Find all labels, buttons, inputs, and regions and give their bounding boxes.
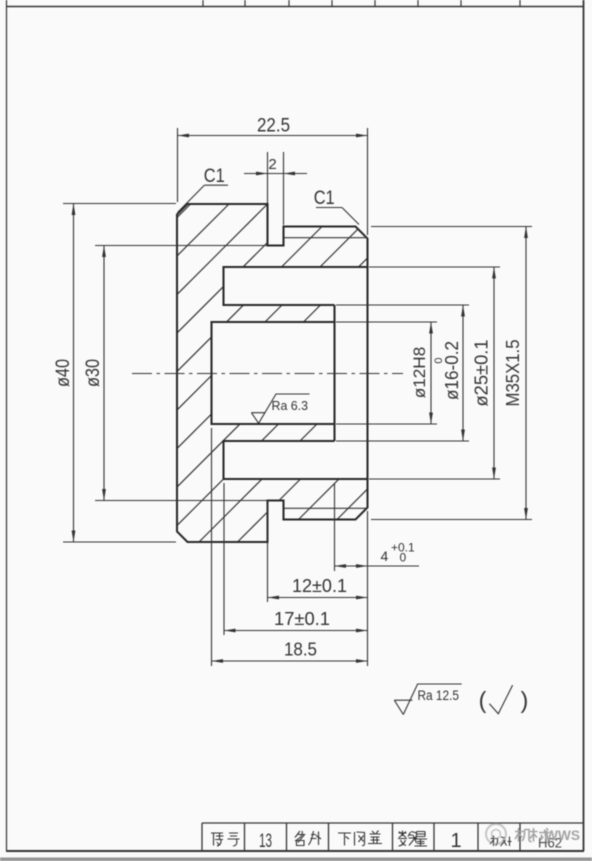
surface finish Ra 6.3 — [251, 394, 309, 423]
hole phi12 rectangle — [212, 322, 335, 424]
title cell xuhao (Chinese glyph strokes) — [211, 833, 240, 846]
svg-text:C1: C1 — [204, 165, 225, 187]
dim 17+-0.1 — [224, 483, 368, 635]
svg-text:ø30: ø30 — [83, 359, 104, 387]
sheet frame left border — [6, 0, 8, 851]
dim 18.5 — [212, 428, 368, 666]
dim phi12H8 — [336, 322, 437, 424]
svg-text:13: 13 — [259, 831, 272, 852]
svg-text:M35X1.5: M35X1.5 — [503, 340, 523, 407]
surface finish Ra 12.5 — [394, 684, 461, 715]
part outer profile — [177, 204, 368, 542]
svg-text:ø12H8: ø12H8 — [411, 347, 429, 399]
svg-text:C1: C1 — [314, 187, 335, 209]
svg-text:WWS: WWS — [545, 827, 580, 843]
dim phi16 0/-0.2 — [336, 305, 469, 441]
chamfer label C1 left — [178, 165, 229, 213]
dim 2 (groove width) — [244, 152, 307, 225]
dim 12+-0.1 — [268, 504, 368, 602]
watermark text jixie WWS — [515, 828, 550, 842]
inner bore recess top band — [224, 267, 368, 305]
svg-text:): ) — [521, 687, 529, 713]
svg-text:22.5: 22.5 — [257, 116, 290, 137]
svg-text:4: 4 — [381, 548, 389, 564]
chamfer label C1 right — [314, 187, 359, 225]
svg-text:12±0.1: 12±0.1 — [292, 576, 347, 596]
svg-text:ø40: ø40 — [53, 359, 74, 387]
svg-text:17±0.1: 17±0.1 — [274, 609, 330, 629]
counterbore bottom face — [333, 305, 335, 441]
dim phi25+-0.1 — [369, 267, 500, 479]
sheet frame top line — [6, 6, 584, 8]
title cell cailiao (Chinese glyph strokes, partially hidden) — [490, 836, 512, 847]
dim M35X1.5 — [371, 227, 532, 520]
title block table — [202, 823, 584, 851]
dim 4 +0.1/0 (recess depth) — [335, 483, 420, 666]
inner bore recess bottom band — [224, 441, 368, 479]
svg-text:1: 1 — [450, 830, 461, 852]
svg-text:(: ( — [479, 687, 487, 713]
svg-text:0: 0 — [400, 551, 407, 565]
center line — [132, 373, 403, 375]
dim phi40 — [53, 204, 176, 543]
thread minor dia line bottom — [284, 507, 368, 509]
watermark logo circle — [486, 824, 506, 844]
thread minor dia line top — [284, 237, 368, 239]
svg-text:Ra 6.3: Ra 6.3 — [272, 399, 309, 413]
svg-text:Ra 12.5: Ra 12.5 — [418, 688, 460, 703]
svg-text:18.5: 18.5 — [284, 640, 317, 660]
svg-text:ø16-0.2: ø16-0.2 — [442, 341, 462, 400]
title cell mingcheng (Chinese glyph strokes) — [295, 831, 321, 846]
sheet frame right border — [583, 0, 585, 851]
image bottom grey edge — [0, 858, 592, 861]
dim 22.5 — [178, 116, 368, 236]
svg-text:0: 0 — [433, 357, 445, 363]
title cell shuliang (Chinese glyph strokes) — [398, 831, 427, 847]
sheet frame bottom line — [6, 850, 584, 852]
svg-text:ø25±0.1: ø25±0.1 — [472, 340, 492, 407]
title cell xiafagai (Chinese glyph strokes) — [338, 831, 382, 846]
other-surfaces symbol (check in parens) — [479, 685, 529, 714]
svg-text:2: 2 — [268, 156, 276, 173]
dim phi30 — [83, 246, 268, 501]
top table ticks — [203, 0, 520, 7]
